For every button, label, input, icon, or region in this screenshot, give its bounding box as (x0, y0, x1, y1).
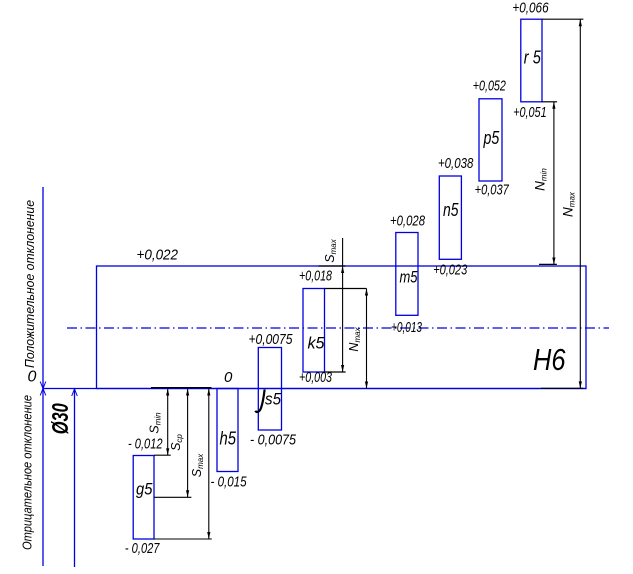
svg-text:+0,013: +0,013 (391, 319, 422, 336)
axis arrowheads at zero crossing (40, 382, 46, 396)
svg-text:p5: p5 (483, 128, 500, 148)
extension line at +0,051 (542, 101, 557, 103)
extension line at +0,018 (325, 288, 367, 290)
extension line at -0,012 (154, 454, 171, 456)
label h5 (220, 429, 237, 449)
label k5 (308, 334, 326, 353)
label +0,038 (438, 155, 474, 172)
svg-text:- 0,027: - 0,027 (125, 540, 160, 557)
shaft tolerance zone g5 (133, 456, 154, 540)
svg-text:Smax: Smax (323, 238, 338, 262)
label -0,012 (128, 436, 163, 453)
svg-text:g5: g5 (136, 480, 153, 499)
label Scp (169, 434, 184, 451)
svg-text:- 0,012: - 0,012 (128, 436, 163, 453)
shaft tolerance zone m5 (396, 233, 418, 316)
label -0,015 (211, 474, 248, 491)
svg-text:+0,037: +0,037 (475, 182, 510, 199)
svg-text:0: 0 (224, 369, 233, 386)
zero line (43, 388, 586, 390)
label Smax g5 (190, 453, 205, 477)
svg-text:+0,066: +0,066 (512, 0, 549, 17)
extension line at +0,003 (325, 371, 346, 373)
label g5 (136, 480, 153, 499)
svg-text:Nmax: Nmax (561, 191, 577, 217)
label Nmax r5 (561, 191, 577, 217)
svg-text:k5: k5 (308, 334, 326, 353)
svg-text:Отрицательное отклонение: Отрицательное отклонение (20, 395, 35, 550)
svg-text:Smin: Smin (148, 412, 163, 434)
label +0,052 (473, 78, 507, 95)
dimension Nmin line (r5 fit) (552, 102, 555, 265)
diameter dimension arrowhead (72, 389, 78, 396)
label positive deviation (22, 200, 37, 368)
dimension Scp line (g5 fit) (186, 389, 189, 498)
label n5 (443, 200, 459, 220)
label +0,003 (299, 369, 332, 386)
label H6 (533, 342, 566, 377)
svg-text:+0,0075: +0,0075 (249, 331, 293, 348)
label -0,027 (125, 540, 160, 557)
svg-text:s5: s5 (265, 390, 281, 409)
label +0,051 (513, 104, 546, 121)
label negative deviation (20, 395, 35, 550)
shaft tolerance zone js5 (258, 348, 281, 431)
label zero at axis (28, 369, 37, 386)
svg-text:+0,051: +0,051 (513, 104, 546, 121)
shaft tolerance zone r5 (521, 19, 542, 102)
svg-text:Scp: Scp (169, 434, 184, 451)
label r5 (524, 48, 542, 68)
label Nmax k5 (347, 326, 362, 351)
svg-text:- 0,0075: - 0,0075 (250, 432, 297, 449)
label js5 (255, 390, 281, 412)
label +0,013 (391, 319, 422, 336)
dimension Nmax line (r5 fit) (579, 19, 582, 388)
extension line at zero right (541, 387, 583, 389)
dimension Smax line (g5 fit) (207, 389, 210, 540)
dimension Nmax line (k5 fit) (365, 289, 368, 389)
extension line at +0,066 (542, 18, 583, 20)
deviation axis vertical line (42, 187, 44, 566)
diameter dimension line (74, 389, 76, 567)
label +0,066 (512, 0, 549, 17)
extension line at +0,022 right (539, 263, 557, 265)
shaft tolerance zone p5 (479, 99, 502, 181)
label zero above h5 (224, 369, 233, 386)
label +0,023 (433, 262, 467, 279)
svg-text:Положительное отклонение: Положительное отклонение (22, 200, 37, 368)
svg-text:Nmax: Nmax (347, 326, 362, 351)
svg-text:- 0,015: - 0,015 (211, 474, 248, 491)
label Smax k5 (323, 238, 338, 262)
dimension Smax line (k5 fit) (341, 238, 344, 373)
svg-text:r 5: r 5 (524, 48, 542, 68)
extension line at +0,022 for k5 Smax (319, 265, 346, 267)
label p5 (483, 128, 500, 148)
diameter label D30 (47, 403, 73, 434)
svg-text:+0,022: +0,022 (137, 247, 179, 264)
label +0,018 (299, 268, 332, 285)
svg-text:+0,018: +0,018 (299, 268, 332, 285)
center dash-dot line (67, 327, 609, 329)
svg-text:+0,038: +0,038 (438, 155, 474, 172)
label +0,0075 (249, 331, 293, 348)
svg-text:+0,052: +0,052 (473, 78, 507, 95)
svg-text:Ø30: Ø30 (47, 403, 73, 434)
svg-text:Smax: Smax (190, 453, 205, 477)
hole tolerance zone H6 (97, 266, 587, 389)
label +0,022 (137, 247, 179, 264)
label m5 (400, 268, 418, 287)
svg-text:h5: h5 (220, 429, 237, 449)
svg-text:m5: m5 (400, 268, 418, 287)
label +0,028 (390, 213, 425, 230)
extension line at g5 middle (154, 496, 191, 498)
svg-text:n5: n5 (443, 200, 459, 220)
label Smin (148, 412, 163, 434)
label -0,0075 (250, 432, 297, 449)
shaft tolerance zone k5 (303, 289, 325, 373)
shaft tolerance zone h5 (217, 389, 238, 472)
svg-text:+0,023: +0,023 (433, 262, 467, 279)
extension line at -0,027 (154, 538, 212, 540)
svg-text:0: 0 (28, 369, 37, 386)
shaft tolerance zone n5 (439, 176, 461, 259)
dimension Smin line (g5 fit) (166, 389, 169, 456)
svg-text:Н6: Н6 (533, 342, 566, 377)
svg-text:Nmin: Nmin (533, 168, 549, 191)
label Nmin (533, 168, 549, 191)
svg-text:+0,028: +0,028 (390, 213, 425, 230)
dimension extension at zero line for S dims (151, 387, 212, 389)
label +0,037 (475, 182, 510, 199)
